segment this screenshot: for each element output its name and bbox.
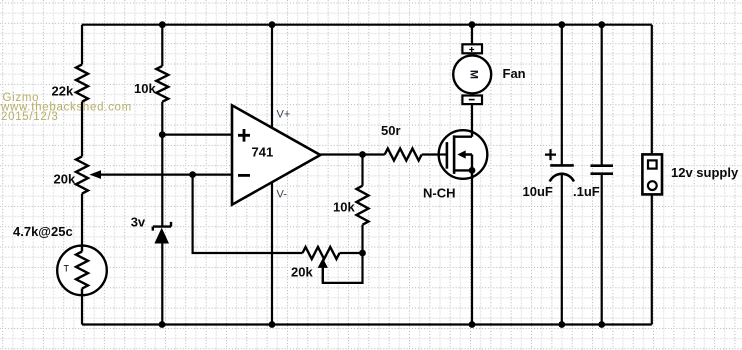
svg-text:12v supply: 12v supply	[671, 165, 739, 180]
wire .1uF bottom	[601, 174, 603, 325]
junction top rail / op-amp V+	[269, 21, 276, 28]
wire bottom 0V rail	[82, 323, 652, 325]
wire thermistor to bottom rail	[81, 295, 83, 325]
junction top rail / .1uF	[598, 21, 605, 28]
junction node B (- input / feedback)	[189, 171, 196, 178]
svg-text:20k: 20k	[291, 265, 313, 280]
wire 10k to zener	[161, 102, 163, 227]
potentiometer VR2 20k feedback	[303, 247, 340, 259]
junction output node	[359, 151, 366, 158]
potentiometer VR1 20k	[76, 156, 88, 193]
junction bottom rail / mosfet source	[469, 321, 476, 328]
resistor R3 50r	[385, 149, 422, 161]
svg-text:2015/12/3: 2015/12/3	[1, 111, 58, 123]
wire pot to thermistor	[81, 194, 83, 246]
wire top V+ rail	[82, 24, 652, 26]
resistor R4 10k feedback	[357, 186, 369, 225]
junction mosfet source stub	[469, 167, 476, 174]
junction bottom rail / 10uF	[558, 321, 565, 328]
resistor R1 22k	[76, 65, 88, 102]
svg-text:10k: 10k	[134, 81, 156, 96]
motor M1 Fan	[462, 44, 482, 53]
svg-text:4.7k@25c: 4.7k@25c	[13, 224, 73, 239]
junction top rail / fan	[469, 21, 476, 28]
junction node A (+ input)	[159, 131, 166, 138]
transistor Q1 N-CH mosfet	[439, 130, 488, 179]
wire fan to mosfet drain	[471, 104, 473, 137]
svg-text:10uF: 10uF	[523, 184, 553, 199]
junction bottom rail / zener	[159, 321, 166, 328]
wire 20k to node B	[340, 252, 363, 254]
wire 50r to mosfet gate	[422, 153, 447, 155]
svg-text:20k: 20k	[54, 172, 76, 187]
wire 10k mid to output node	[361, 155, 363, 186]
svg-text:3v: 3v	[131, 214, 146, 229]
svg-text:Fan: Fan	[503, 66, 526, 81]
wire op-amp output	[320, 153, 385, 155]
svg-text:22k: 22k	[52, 83, 74, 98]
thermistor TH1 4.7k@25c	[57, 246, 107, 296]
svg-text:N-CH: N-CH	[423, 185, 456, 200]
svg-text:T: T	[64, 263, 70, 273]
wire node B to 10k mid	[361, 225, 363, 253]
wire 10uF top	[561, 25, 563, 166]
junction top rail / 10uF	[558, 21, 565, 28]
junction bottom rail / op-amp V-	[269, 321, 276, 328]
wire node A to op-amp + input	[162, 134, 233, 136]
svg-text:M: M	[468, 70, 480, 79]
svg-text:741: 741	[252, 144, 274, 159]
wire 12v supply branch	[651, 25, 653, 325]
svg-text:V-: V-	[277, 189, 288, 201]
wire - input node down to 20k feedback	[193, 175, 303, 253]
wire op-amp V+/V- power line	[271, 25, 273, 325]
wire 22k to pot	[81, 102, 83, 157]
wire top rail to 10k	[161, 25, 163, 66]
wire pot wiper to op-amp - input	[96, 174, 233, 176]
wire mosfet source to bottom rail	[471, 155, 473, 325]
junction bottom rail / .1uF	[598, 321, 605, 328]
svg-text:.1uF: .1uF	[573, 184, 600, 199]
op-amp U1 741	[232, 105, 320, 204]
junction top rail / 10k	[159, 21, 166, 28]
wire top rail to fan	[471, 25, 473, 46]
resistor R2 10k	[156, 66, 168, 102]
svg-text:V+: V+	[277, 108, 291, 120]
capacitor C2 .1uF	[591, 166, 614, 174]
svg-text:10k: 10k	[333, 200, 355, 215]
svg-text:50r: 50r	[381, 123, 401, 138]
wire zener to bottom rail	[161, 244, 163, 325]
battery B1 12v supply	[642, 154, 662, 194]
zener diode D1 3v	[153, 222, 171, 231]
junction feedback divider node	[359, 250, 366, 257]
wire left rail top segment	[81, 25, 83, 65]
wire 10uF bottom	[561, 173, 563, 325]
capacitor C1 10uF	[550, 164, 574, 167]
wire 20k wiper loop	[323, 253, 363, 283]
wire .1uF top	[601, 25, 603, 166]
